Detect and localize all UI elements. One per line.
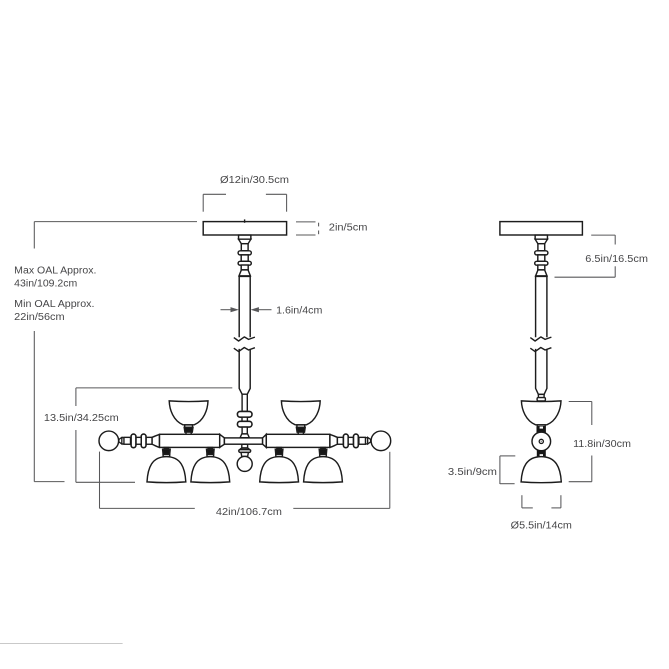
upper stem tube (side) xyxy=(536,276,547,337)
dia5.5 bracket left horizontal xyxy=(522,507,533,509)
svg-text:6.5in/16.5cm: 6.5in/16.5cm xyxy=(585,254,648,265)
OAL foot xyxy=(34,481,64,483)
bar left taper xyxy=(220,434,225,447)
break squiggle lower xyxy=(234,348,255,352)
left knob rod 3 xyxy=(124,437,131,444)
ball centre screw xyxy=(539,439,543,443)
13.5in top extension line xyxy=(76,387,232,389)
svg-text:3.5in/9cm: 3.5in/9cm xyxy=(448,467,497,478)
right knob ring 2 xyxy=(354,434,359,448)
3.5in bottom tick xyxy=(500,483,515,485)
right knob rod 3 xyxy=(359,437,366,444)
OAL vertical lower xyxy=(33,331,35,482)
42in right extent xyxy=(389,452,391,509)
right knob ring 1 xyxy=(343,434,348,448)
centre ball (side) xyxy=(532,432,551,451)
11.8in top tick xyxy=(569,401,592,403)
left cup shade xyxy=(169,401,208,436)
bar left thick section xyxy=(160,434,220,447)
OAL top extension line xyxy=(34,221,197,223)
stem neck xyxy=(242,417,247,421)
dome shade 1 xyxy=(147,448,186,483)
42in line left segment xyxy=(100,507,195,509)
canopy plate (side view) xyxy=(500,222,583,235)
svg-text:13.5in/34.25cm: 13.5in/34.25cm xyxy=(44,413,119,424)
canopy centre tick xyxy=(244,219,246,222)
dome shade 4 xyxy=(304,448,343,483)
1.6in right arrow line xyxy=(258,309,272,311)
svg-text:Ø5.5in/14cm: Ø5.5in/14cm xyxy=(511,520,572,531)
svg-text:43in/109.2cm: 43in/109.2cm xyxy=(14,278,77,289)
centre fitting taper xyxy=(241,452,248,456)
bar right taper xyxy=(263,434,267,447)
thin rod xyxy=(242,394,247,411)
2in bracket bottom line xyxy=(296,234,316,236)
svg-text:11.8in/30cm: 11.8in/30cm xyxy=(573,439,631,450)
bar left cone xyxy=(152,434,160,447)
1.6in left arrowhead xyxy=(231,307,239,312)
break squiggle upper (side) xyxy=(530,337,551,341)
dia5.5 bracket left vertical xyxy=(521,495,523,508)
13.5in vertical upper xyxy=(75,388,77,406)
right knob wedge tip xyxy=(368,437,371,444)
left knob wedge tip xyxy=(119,437,122,444)
11.8in bottom tick xyxy=(569,481,592,483)
6.5in bottom tick xyxy=(555,276,616,278)
left knob ring 2 xyxy=(131,434,136,448)
svg-text:22in/56cm: 22in/56cm xyxy=(14,312,64,323)
right cup shade xyxy=(281,401,320,436)
bar right cone xyxy=(330,434,338,447)
break squiggle lower (side) xyxy=(530,348,551,352)
turned finial under canopy xyxy=(238,235,251,276)
6.5in vertical upper xyxy=(614,235,616,244)
centre fitting neck below bar xyxy=(242,444,248,448)
bar right thick section xyxy=(266,434,330,447)
dome shade 2 xyxy=(191,448,230,483)
right knob rod xyxy=(337,437,343,444)
dia12 bracket left top xyxy=(203,193,226,195)
42in line right segment xyxy=(293,507,390,509)
rod to bar xyxy=(242,427,247,434)
socket white band (side) xyxy=(537,425,545,427)
3.5in top tick xyxy=(500,455,515,457)
2in bracket bottom stub xyxy=(318,231,320,235)
2in bracket top stub xyxy=(318,223,320,227)
OAL vertical upper xyxy=(33,222,35,249)
stem flare onto bar xyxy=(240,434,249,438)
dome shade (side view) xyxy=(521,457,561,483)
2in bracket top line xyxy=(296,221,316,223)
svg-text:Min OAL Approx.: Min OAL Approx. xyxy=(14,299,94,310)
right knob rod 2 xyxy=(348,437,353,444)
1.6in left arrow line xyxy=(221,309,232,311)
centre fitting disc xyxy=(239,450,251,453)
stem ring 2 xyxy=(237,421,252,427)
cup shade (side view) xyxy=(521,401,561,425)
upper stem tube xyxy=(239,276,250,337)
right knob small collar xyxy=(366,438,368,444)
svg-text:42in/106.7cm: 42in/106.7cm xyxy=(216,507,282,518)
left knob small collar xyxy=(122,438,124,444)
13.5in vertical lower xyxy=(75,430,77,482)
6.5in vertical lower xyxy=(614,266,616,277)
svg-text:Max OAL Approx.: Max OAL Approx. xyxy=(14,266,96,277)
right end ball xyxy=(371,431,391,451)
centre ball xyxy=(237,456,252,471)
dia12 bracket left vertical xyxy=(202,194,204,211)
bar narrow middle xyxy=(224,438,262,444)
left knob rod xyxy=(146,437,152,444)
socket dark band lower (side) xyxy=(537,450,546,456)
left knob ring 1 xyxy=(141,434,146,448)
dia5.5 bracket right vertical xyxy=(560,495,562,508)
socket dark band upper (side) xyxy=(537,427,546,434)
13.5in foot xyxy=(76,481,135,483)
dia12 bracket right top xyxy=(266,193,287,195)
lower stem tube xyxy=(239,349,250,394)
left knob rod 2 xyxy=(136,437,141,444)
3.5in vertical xyxy=(499,456,501,484)
dome shade 3 xyxy=(260,448,299,483)
1.6in right arrowhead xyxy=(251,307,259,312)
break squiggle upper xyxy=(234,337,255,341)
stem neck (side) xyxy=(538,394,544,397)
footer light rule xyxy=(0,643,123,645)
centre fitting flare xyxy=(240,448,250,450)
11.8in vertical lower xyxy=(591,456,593,482)
turned finial under canopy (side) xyxy=(535,235,548,276)
svg-text:2in/5cm: 2in/5cm xyxy=(329,222,368,233)
6.5in top tick xyxy=(591,234,615,236)
dia12 bracket right vertical xyxy=(286,194,288,211)
stem knob above cup xyxy=(537,398,545,401)
svg-text:Ø12in/30.5cm: Ø12in/30.5cm xyxy=(220,175,289,186)
left end ball xyxy=(99,431,119,451)
svg-text:1.6in/4cm: 1.6in/4cm xyxy=(276,305,322,316)
11.8in vertical upper xyxy=(591,402,593,426)
lower stem tube (side) xyxy=(536,349,547,395)
dia5.5 bracket right horizontal xyxy=(551,507,561,509)
stem ring 1 xyxy=(237,411,252,417)
canopy plate (front view) xyxy=(203,222,286,235)
42in left extent xyxy=(99,452,101,509)
